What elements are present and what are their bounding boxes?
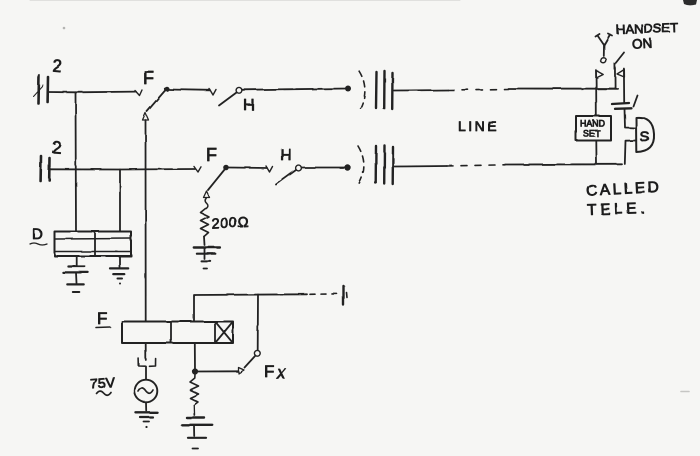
resistor 200 ohm (zigzag) — [201, 209, 209, 237]
switch-hook Y symbol — [596, 34, 613, 57]
svg-text:F: F — [97, 309, 107, 328]
wire H2 to transformer T2 — [302, 167, 348, 169]
label D (relay) — [30, 226, 47, 245]
relay F box — [122, 322, 233, 344]
receiver S (bell case) — [636, 117, 654, 152]
break symbol above generator — [139, 359, 156, 367]
svg-text:TELE.: TELE. — [587, 200, 649, 219]
open triangle at F1 armature — [143, 113, 149, 120]
wire relay F bottom left lead — [145, 343, 147, 360]
label LINE — [458, 118, 499, 134]
X marker in relay F slow element — [216, 322, 233, 343]
svg-text:2: 2 — [51, 138, 62, 158]
ground (under 200 ohm) — [194, 248, 220, 269]
wire F2 armature to resistor — [205, 198, 208, 209]
wire F1 armature down to F relay coil — [145, 120, 147, 322]
switch H1 pivot circle and blade — [219, 87, 242, 105]
open triangle at F2 armature — [204, 191, 210, 198]
svg-text:ON: ON — [632, 36, 653, 52]
resistor under relay F (zigzag) — [190, 374, 199, 405]
label F (top switch) — [143, 68, 154, 88]
wire handset box to bottom line — [595, 141, 597, 165]
bottom line solid to called telephone — [505, 163, 622, 165]
label F (bottom relay) — [96, 309, 110, 328]
wire top line from C2 to F contact — [48, 91, 136, 94]
svg-text:HAND: HAND — [580, 119, 605, 129]
switch-hook pivot circle — [601, 58, 606, 63]
top line solid to called telephone — [508, 88, 618, 90]
switch F1 blade and pivot dot — [147, 86, 169, 111]
label ON — [632, 36, 653, 52]
handset box — [576, 116, 611, 141]
wire top line down to D relay left winding — [75, 92, 78, 231]
transformer T1 primary arc (dashed) — [359, 71, 365, 112]
contact arrowhead at F1 — [135, 90, 142, 96]
switch Fx pivot circle and blade — [245, 350, 261, 367]
svg-text:200Ω: 200Ω — [211, 215, 250, 232]
wire T1 secondary to line (solid) — [394, 89, 448, 92]
wire D left winding to ground — [76, 256, 78, 266]
transformer T2 primary arc (dashed) — [358, 146, 364, 186]
wire capacitor to receiver upper terminal — [625, 109, 636, 128]
svg-text:H: H — [243, 97, 255, 114]
AC generator 75V (circle with tilde) — [135, 380, 158, 403]
ground (under generator) — [136, 412, 158, 428]
relay D box — [55, 232, 132, 257]
wire top line into hook common — [596, 88, 618, 90]
label HAND SET (in box) — [580, 119, 605, 139]
contact arrowhead at F2 — [194, 167, 201, 173]
label H (second switch) — [280, 147, 292, 164]
label Fx — [264, 362, 287, 383]
capacitor C2 top (plates) — [33, 75, 48, 103]
arrowhead at end of F1 wire — [210, 89, 217, 95]
ground (under D relay left) — [63, 267, 88, 293]
capacitor C1 (plates) — [612, 103, 632, 109]
wire F2 to H2 — [229, 167, 267, 170]
label 75V — [90, 374, 117, 392]
label 1 (capacitor) — [634, 96, 638, 107]
svg-text:F: F — [264, 362, 274, 381]
wire second line down to D relay right winding — [119, 170, 121, 232]
label CALLED — [586, 179, 662, 200]
transformer T2 core bars — [376, 146, 393, 185]
ground (under relay F resistor) — [182, 418, 213, 449]
wire resistor to ground — [203, 237, 206, 246]
label 200 ohm — [211, 215, 250, 232]
wire second line from C2 to F2 contact — [50, 168, 195, 171]
scan artifact gray dot — [63, 27, 66, 30]
svg-text:x: x — [276, 363, 287, 383]
hook switch blade (open) — [616, 53, 624, 64]
wire hook left contact down to handset box — [595, 89, 597, 116]
contact common stub — [614, 64, 616, 88]
svg-text:2: 2 — [52, 56, 63, 76]
junction dot at T2 primary — [344, 164, 350, 170]
wire D right winding to ground — [119, 256, 121, 267]
label HANDSET — [616, 20, 679, 37]
svg-text:F: F — [143, 68, 154, 88]
switch F2 blade and pivot dot — [208, 165, 229, 190]
svg-text:S: S — [640, 129, 650, 146]
switch H2 pivot circle and blade — [276, 165, 301, 184]
scan artifact top streak — [30, 0, 460, 2]
svg-text:75V: 75V — [90, 374, 117, 392]
bottom line dashed section — [447, 165, 505, 166]
contact to handset (left, with flag) — [596, 70, 603, 88]
junction dot above resistor — [192, 368, 198, 374]
junction dot at T1 primary — [345, 86, 351, 92]
wire junction to Fx contact — [195, 370, 238, 372]
label F (second switch) — [206, 145, 217, 165]
transformer T1 core bars — [376, 71, 393, 109]
svg-text:SET: SET — [583, 129, 601, 139]
receiver lower terminal stub — [625, 141, 636, 165]
wire break to generator — [145, 367, 147, 380]
capacitor C2 bottom (plates) — [41, 156, 50, 181]
top line dashed section — [448, 89, 508, 90]
scan artifact faint dash right — [681, 391, 689, 393]
label H (top switch) — [243, 97, 255, 114]
wire from upper-right run down to Fx contact — [257, 295, 259, 351]
terminal bar at end of dashed run — [344, 286, 348, 305]
wire F1 to H1 — [169, 89, 210, 92]
arrowhead at end of F2 wire — [266, 166, 273, 172]
wire relay F top to upper-right run — [194, 294, 307, 321]
label 2 (bottom capacitor) — [51, 138, 62, 158]
svg-text:H: H — [280, 147, 292, 164]
label 2 (top capacitor) — [52, 56, 63, 76]
ground (under D relay right) — [110, 268, 128, 284]
wire H1 to transformer T1 — [242, 89, 348, 90]
tilde under 75V label — [97, 392, 111, 396]
wire generator to ground — [145, 402, 147, 410]
svg-text:HANDSET: HANDSET — [616, 20, 679, 37]
svg-text:D: D — [32, 226, 43, 243]
label TELE. — [587, 200, 649, 219]
dashed tail of upper-right run — [310, 293, 341, 296]
svg-text:CALLED: CALLED — [586, 179, 662, 200]
wire relay F bottom to junction — [194, 343, 196, 372]
svg-text:LINE: LINE — [458, 118, 499, 134]
wire T2 secondary to line (solid) — [395, 165, 448, 168]
open arrowhead at Fx fixed contact — [239, 368, 245, 374]
contact to ringer (right, with flag) — [617, 69, 624, 104]
wire resistor to ground — [193, 405, 195, 415]
svg-text:F: F — [206, 145, 217, 165]
scan artifact top-right blob — [683, 0, 697, 5]
